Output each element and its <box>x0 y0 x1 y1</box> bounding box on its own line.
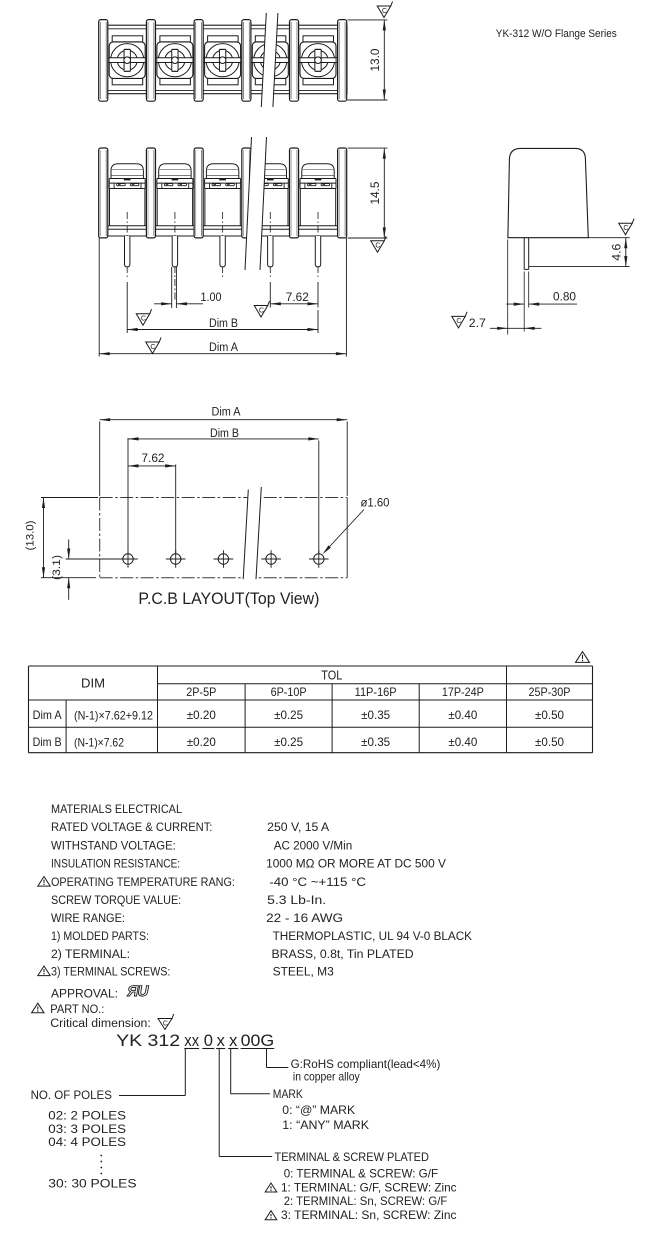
svg-text:Dim B: Dim B <box>33 735 62 749</box>
svg-text:2) TERMINAL:: 2) TERMINAL: <box>51 947 130 961</box>
svg-text:(N-1)×7.62+9.12: (N-1)×7.62+9.12 <box>74 709 153 723</box>
svg-text:OPERATING TEMPERATURE RANG:: OPERATING TEMPERATURE RANG: <box>51 875 235 889</box>
svg-text:30: 30 POLES: 30: 30 POLES <box>48 1177 136 1191</box>
svg-text:Dim B: Dim B <box>210 428 239 440</box>
svg-text:ø1.60: ø1.60 <box>361 498 390 510</box>
svg-text:04: 4 POLES: 04: 4 POLES <box>48 1135 126 1149</box>
svg-text:7.62: 7.62 <box>142 453 165 465</box>
svg-text:5.3 Lb-In.: 5.3 Lb-In. <box>267 893 326 907</box>
svg-text:1.00: 1.00 <box>201 292 222 304</box>
svg-text:0: TERMINAL & SCREW: G/F: 0: TERMINAL & SCREW: G/F <box>284 1167 438 1181</box>
svg-text:3: TERMINAL: Sn, SCREW: Zinc: 3: TERMINAL: Sn, SCREW: Zinc <box>281 1208 457 1222</box>
svg-text:2: TERMINAL: Sn, SCREW: G/F: 2: TERMINAL: Sn, SCREW: G/F <box>284 1194 448 1208</box>
svg-text:11P-16P: 11P-16P <box>355 685 397 699</box>
svg-text:±0.50: ±0.50 <box>535 735 564 749</box>
svg-text:C: C <box>259 307 264 314</box>
svg-text:2.7: 2.7 <box>469 318 486 330</box>
svg-text:±0.40: ±0.40 <box>448 735 477 749</box>
svg-text:C: C <box>382 8 387 15</box>
svg-text:0: “@” MARK: 0: “@” MARK <box>282 1103 355 1117</box>
svg-text:14.5: 14.5 <box>370 182 382 205</box>
svg-text:in copper alloy: in copper alloy <box>293 1069 360 1083</box>
svg-text:1: “ANY” MARK: 1: “ANY” MARK <box>282 1118 369 1132</box>
svg-text:ЯU: ЯU <box>126 983 150 1000</box>
svg-text:Dim B: Dim B <box>209 318 238 330</box>
svg-text:0: 0 <box>204 1032 213 1050</box>
svg-text:3) TERMINAL SCREWS:: 3) TERMINAL SCREWS: <box>51 965 170 979</box>
svg-text:0.80: 0.80 <box>553 292 576 304</box>
svg-text:1000 MΩ OR MORE AT DC 500 V: 1000 MΩ OR MORE AT DC 500 V <box>266 857 447 871</box>
svg-text:xx: xx <box>184 1032 199 1050</box>
svg-text:INSULATION RESISTANCE:: INSULATION RESISTANCE: <box>51 857 180 871</box>
svg-text:(13.0): (13.0) <box>25 521 37 551</box>
svg-text:(3.1): (3.1) <box>51 555 63 580</box>
svg-text:02: 2 POLES: 02: 2 POLES <box>48 1109 126 1123</box>
svg-text:±0.25: ±0.25 <box>274 735 303 749</box>
svg-text:STEEL, M3: STEEL, M3 <box>273 965 334 979</box>
svg-text:DIM: DIM <box>81 677 105 691</box>
svg-text:C: C <box>141 316 146 323</box>
svg-text:250 V, 15 A: 250 V, 15 A <box>267 820 330 834</box>
svg-text:2P-5P: 2P-5P <box>186 685 216 699</box>
svg-text:±0.50: ±0.50 <box>535 708 564 722</box>
svg-text:SCREW TORQUE VALUE:: SCREW TORQUE VALUE: <box>51 893 181 907</box>
svg-text:00G: 00G <box>241 1032 275 1050</box>
svg-text:03: 3 POLES: 03: 3 POLES <box>48 1122 126 1136</box>
svg-text:YK 312: YK 312 <box>116 1032 180 1050</box>
svg-text:WIRE RANGE:: WIRE RANGE: <box>51 911 125 925</box>
svg-text:±0.20: ±0.20 <box>187 735 216 749</box>
svg-text:25P-30P: 25P-30P <box>529 685 571 699</box>
svg-text:Critical dimension:: Critical dimension: <box>50 1018 151 1030</box>
svg-text:C: C <box>375 243 380 250</box>
svg-text:APPROVAL:: APPROVAL: <box>51 987 118 1001</box>
svg-text:MATERIALS ELECTRICAL: MATERIALS ELECTRICAL <box>51 802 182 816</box>
svg-text:±0.35: ±0.35 <box>361 735 390 749</box>
svg-text:±0.40: ±0.40 <box>448 708 477 722</box>
svg-text:MARK: MARK <box>273 1087 303 1101</box>
svg-text:Dim A: Dim A <box>33 708 62 722</box>
svg-text:22 - 16 AWG: 22 - 16 AWG <box>266 911 343 925</box>
svg-text:±0.35: ±0.35 <box>361 708 390 722</box>
svg-text:THERMOPLASTIC, UL 94 V-0 BLACK: THERMOPLASTIC, UL 94 V-0 BLACK <box>273 929 472 943</box>
svg-text:x: x <box>217 1032 226 1050</box>
svg-text:PART NO.:: PART NO.: <box>50 1002 104 1016</box>
svg-text:7.62: 7.62 <box>286 292 309 304</box>
svg-text:C: C <box>150 344 155 351</box>
svg-text:-40 °C ~+115 °C: -40 °C ~+115 °C <box>269 875 366 889</box>
svg-text:TERMINAL & SCREW PLATED: TERMINAL & SCREW PLATED <box>275 1150 430 1164</box>
svg-text:C: C <box>456 318 461 325</box>
svg-text:C: C <box>623 225 628 232</box>
svg-text:Dim A: Dim A <box>209 342 238 354</box>
svg-text:C: C <box>163 1020 168 1027</box>
svg-text:BRASS, 0.8t, Tin PLATED: BRASS, 0.8t, Tin PLATED <box>272 947 414 961</box>
svg-text:1) MOLDED PARTS:: 1) MOLDED PARTS: <box>51 929 149 943</box>
svg-text:4.6: 4.6 <box>612 244 624 261</box>
svg-text:±0.25: ±0.25 <box>274 708 303 722</box>
svg-text:TOL: TOL <box>321 669 342 683</box>
svg-text:(N-1)×7.62: (N-1)×7.62 <box>74 736 124 750</box>
svg-text:P.C.B LAYOUT(Top View): P.C.B LAYOUT(Top View) <box>138 590 319 608</box>
svg-text:RATED VOLTAGE & CURRENT:: RATED VOLTAGE & CURRENT: <box>51 820 212 834</box>
svg-text:YK-312 W/O Flange Series: YK-312 W/O Flange Series <box>496 28 617 40</box>
svg-text:AC 2000 V/Min: AC 2000 V/Min <box>274 839 353 853</box>
svg-text:x: x <box>229 1032 238 1050</box>
svg-text:17P-24P: 17P-24P <box>442 685 484 699</box>
svg-text:NO. OF POLES: NO. OF POLES <box>31 1088 112 1102</box>
svg-text:6P-10P: 6P-10P <box>271 685 307 699</box>
svg-text:1: TERMINAL: G/F, SCREW: Zinc: 1: TERMINAL: G/F, SCREW: Zinc <box>281 1180 457 1194</box>
svg-text:13.0: 13.0 <box>370 49 382 72</box>
svg-text:±0.20: ±0.20 <box>187 708 216 722</box>
svg-text:WITHSTAND VOLTAGE:: WITHSTAND VOLTAGE: <box>51 839 176 853</box>
svg-text:Dim A: Dim A <box>212 407 241 419</box>
